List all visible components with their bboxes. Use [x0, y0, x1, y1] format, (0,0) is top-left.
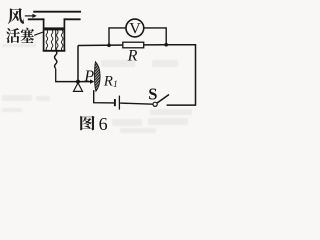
cylinder right wall: [63, 18, 65, 51]
main wire through R: [78, 44, 166, 47]
wind tunnel bottom wall left segment: [28, 18, 45, 20]
spring coil 2: [51, 30, 53, 50]
svg-text:R: R: [127, 47, 138, 64]
junction dot left: [107, 44, 111, 48]
piston head: [44, 27, 63, 30]
wind tunnel top wall: [33, 11, 81, 13]
wind direction arrow: [25, 14, 37, 18]
junction dot right: [164, 43, 168, 47]
label: piston 活塞: [6, 28, 34, 43]
svg-text:6: 6: [99, 114, 108, 134]
voltmeter branch right wire: [144, 28, 167, 45]
label: wind 风: [8, 8, 24, 24]
spring coil 4: [61, 30, 63, 50]
svg-text:V: V: [129, 21, 141, 38]
wind tunnel bottom wall right segment: [64, 18, 81, 20]
resistor R body: [123, 42, 144, 48]
voltmeter V body: [126, 19, 144, 37]
wire down to lever pivot: [77, 46, 79, 82]
switch S pivot: [153, 102, 157, 106]
wire switch to right side: [167, 45, 196, 105]
rheostat arc R1: [95, 62, 101, 92]
pivot junction dot: [76, 80, 80, 84]
switch S blade: [157, 95, 169, 104]
pointer arrowhead: [90, 79, 94, 83]
piston rod inside cylinder: [55, 30, 57, 51]
voltmeter branch left wire: [109, 28, 126, 45]
main wire top right: [166, 44, 196, 46]
spring coil 1: [46, 30, 48, 50]
svg-text:S: S: [148, 85, 157, 104]
battery negative plate: [114, 99, 116, 106]
label line for piston 活塞: [34, 32, 44, 36]
spring coil 3: [57, 30, 59, 50]
piston rod spring section: [55, 51, 57, 69]
wire battery to switch: [120, 103, 153, 104]
piston rod: [55, 69, 57, 82]
wire from rheostat bottom: [94, 91, 115, 103]
lever pointer arm: [55, 81, 90, 83]
svg-text:P: P: [83, 68, 94, 85]
label: figure caption 图6: [80, 114, 107, 134]
cylinder left wall: [43, 18, 45, 51]
fulcrum triangle: [74, 83, 83, 92]
cylinder bottom cap: [43, 50, 66, 52]
battery positive plate: [118, 96, 120, 110]
